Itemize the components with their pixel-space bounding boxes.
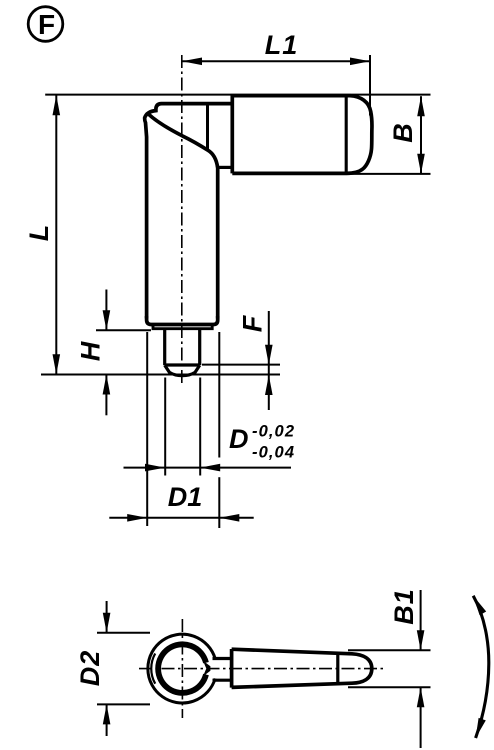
- dimension D extension line right (pin): [199, 378, 201, 476]
- ring vertical centerline: [181, 619, 183, 718]
- svg-text:D1: D1: [168, 482, 203, 512]
- dimension B1 arrow bottom: [417, 687, 425, 707]
- centerline of body (vertical dash-dot): [181, 55, 183, 386]
- view label circle F: [28, 7, 63, 42]
- dimension B1 arrow top: [417, 630, 425, 650]
- dimension B1 extension line bottom: [348, 686, 431, 688]
- dimension B arrow bottom: [417, 154, 425, 174]
- pin chamfer top line: [165, 363, 200, 366]
- pin left edge: [163, 330, 166, 366]
- dimension H arrow top: [103, 310, 111, 330]
- dimension D1 arrow right: [219, 514, 239, 522]
- cylinder bottom with rounded corners: [147, 316, 218, 325]
- ledge between cam and grip: [217, 166, 233, 169]
- dimension F extension line: [202, 364, 280, 366]
- svg-text:L: L: [24, 225, 54, 242]
- dimension B arrow top: [417, 96, 425, 116]
- pin right edge: [198, 330, 201, 366]
- cam hub cap outline: [145, 104, 232, 319]
- dimension D1 extension line right lower: [218, 477, 220, 528]
- svg-text:H: H: [76, 341, 106, 361]
- dimension L1 line: [182, 60, 370, 62]
- lever grip outline (top view): [232, 96, 372, 174]
- side handle cap tangent line: [336, 654, 339, 683]
- ring horizontal centerline: [139, 668, 385, 670]
- dimension D arrow left: [145, 464, 165, 472]
- dimension B extension line bottom: [350, 173, 431, 175]
- ring outer circle with neck gap: [148, 634, 215, 703]
- dimension B1 shaft top: [420, 590, 422, 650]
- dimension D2 arrow bottom: [103, 704, 111, 724]
- dimension D2 extension line bottom: [97, 703, 150, 705]
- svg-text:-0,04: -0,04: [252, 444, 295, 462]
- dimension H shaft top: [105, 290, 107, 331]
- swing arc arrow top: [473, 596, 486, 615]
- dimension D arrow right: [200, 464, 220, 472]
- dimension L arrow top: [53, 95, 61, 115]
- neck top wall: [213, 657, 232, 660]
- dimension L1 arrow left: [182, 58, 202, 66]
- svg-text:F: F: [38, 9, 55, 40]
- dimension B1 shaft bottom: [420, 688, 422, 749]
- svg-text:L1: L1: [265, 30, 299, 60]
- dimension D1 extension line right upper: [218, 332, 220, 458]
- dimension F shaft: [268, 311, 270, 410]
- dimension D1 line: [109, 517, 253, 519]
- lever grip end-cap tangent line: [345, 97, 348, 173]
- dimension B1 extension line top: [348, 649, 431, 651]
- svg-text:B: B: [388, 123, 418, 143]
- swing arc: [473, 596, 489, 738]
- svg-text:F: F: [238, 314, 268, 332]
- dimension L line: [55, 95, 57, 374]
- dimension D2 extension line top: [97, 632, 150, 634]
- swing arc arrow bottom: [476, 718, 486, 738]
- baseline extension line (pin tip, for L, H, F): [41, 374, 280, 376]
- dimension D extension line left (pin): [164, 378, 166, 476]
- dimension D1 arrow left: [127, 514, 147, 522]
- cam hub cap edge line: [206, 105, 209, 151]
- dimension D line: [124, 467, 292, 469]
- dimension H arrow bottom: [103, 375, 111, 395]
- side handle outline: [232, 649, 372, 688]
- neck bottom wall: [213, 679, 232, 682]
- dimension H shaft bottom: [105, 375, 107, 416]
- svg-text:D2: D2: [75, 650, 105, 687]
- dimension B line: [420, 96, 422, 174]
- svg-text:D: D: [229, 424, 249, 454]
- dimension L1 arrow right: [350, 58, 370, 66]
- ring inner clamp circle with slot gap: [158, 644, 206, 693]
- top extension line (top of part, for L and B): [45, 94, 430, 96]
- dimension L1 extension line right: [369, 55, 371, 116]
- dimension H extension line: [96, 329, 151, 331]
- dimension F arrow bottom: [265, 375, 273, 395]
- dimension D2 shaft top: [106, 601, 108, 633]
- dimension D2 shaft bottom: [106, 705, 108, 736]
- svg-text:B1: B1: [389, 588, 419, 625]
- cam spiral curve: [149, 114, 218, 167]
- pin tip chamfer and dome: [165, 365, 200, 375]
- shoulder lip under cylinder: [153, 326, 212, 329]
- svg-text:-0,02: -0,02: [252, 423, 295, 441]
- ring left relief arc: [151, 654, 155, 684]
- ring clamp slot pinch wedge: [203, 661, 210, 677]
- cylinder right edge: [216, 166, 220, 319]
- dimension F arrow top: [265, 345, 273, 365]
- dimension L arrow bottom: [53, 354, 61, 374]
- dimension D2 arrow top: [103, 613, 111, 633]
- dimension D1 extension line left: [146, 332, 148, 526]
